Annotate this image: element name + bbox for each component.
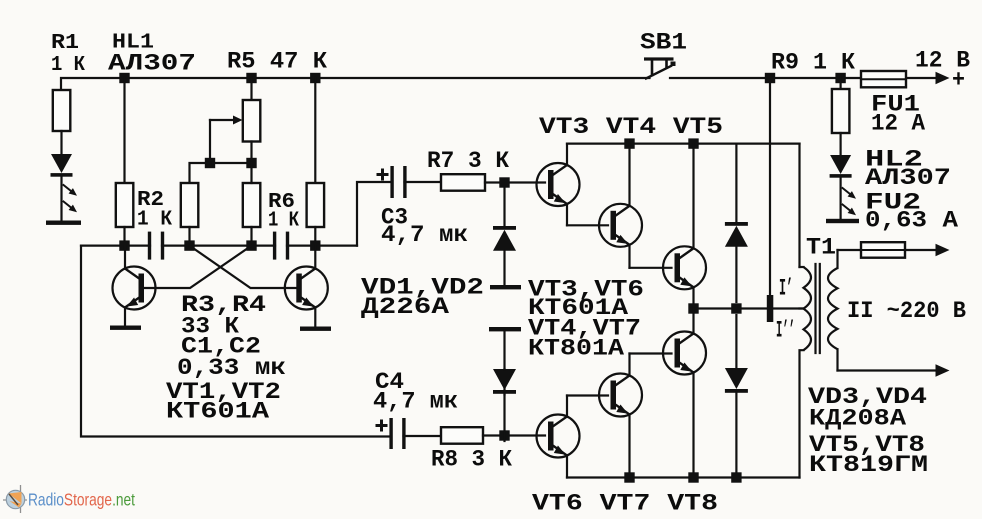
junction node wiper B (246, 158, 256, 168)
fuse FU2 (861, 242, 905, 258)
junction node wiper A (205, 158, 215, 168)
svg-text:1 К: 1 К (268, 210, 299, 233)
label R9 (771, 50, 855, 76)
wire primary center tap (800, 307, 804, 309)
svg-text:R1: R1 (51, 32, 79, 55)
ground of HL2 (826, 219, 859, 223)
svg-text:I’’: I’’ (776, 318, 795, 344)
junction node rail-VT4 (624, 138, 634, 148)
junction node rail-R5 (246, 73, 256, 83)
resistor R1 (53, 90, 71, 131)
junction node R3-C1 base net (184, 240, 194, 250)
wire rail to R5 (250, 78, 252, 100)
arrow +12V output (936, 72, 950, 85)
wire secondary top output (838, 249, 862, 251)
label VD1 VD2 (361, 275, 484, 321)
junction node VD4 bus (731, 472, 741, 482)
wire rail to R2 (123, 78, 125, 183)
arrow secondary output bottom (936, 364, 950, 377)
switch SB1 (644, 57, 676, 78)
resistor R9 (832, 89, 850, 133)
label VT3 VT6 types (528, 277, 644, 362)
svg-text:Т1: Т1 (806, 235, 836, 261)
svg-text:КТ601А: КТ601А (166, 399, 269, 425)
junction node rail-R9 (835, 73, 845, 83)
wire center tap line (694, 307, 804, 309)
label SB1 (640, 30, 687, 56)
ground of VT2 (300, 327, 331, 331)
LED HL1 (51, 131, 73, 221)
label FU2 (865, 190, 958, 234)
LED HL1 light arrows (64, 185, 78, 212)
wire FU2 to output arrow (905, 249, 936, 251)
label R7 (427, 148, 509, 174)
ground of HL1 (46, 221, 81, 225)
ground of VT1 (110, 326, 141, 330)
wire R5 bottom to node B (250, 142, 252, 164)
wire wiper node to R3 (190, 163, 211, 183)
wire R6 to collector node VT2 (314, 227, 316, 246)
junction node R4-C2 base net (246, 240, 256, 250)
svg-text:1 К: 1 К (51, 54, 85, 77)
label R6 (268, 191, 299, 233)
wire VT1 base cross-coupling (144, 246, 252, 288)
label R1 (51, 32, 85, 77)
wire bottom emitter bus (567, 476, 800, 478)
svg-text:II ~220 В: II ~220 В (847, 298, 966, 324)
diode VD4 (725, 315, 748, 478)
svg-text:0,33 мк: 0,33 мк (177, 355, 286, 381)
label VT6 VT7 VT8 (532, 491, 718, 517)
label R2 (137, 189, 172, 232)
svg-text:VT3 VT4 VT5: VT3 VT4 VT5 (539, 114, 723, 140)
wire rail to R9 (839, 78, 841, 89)
wire R8 to VT6 base (483, 434, 545, 436)
svg-text:R9 1 К: R9 1 К (771, 50, 855, 76)
wire collector node VT1 (81, 245, 150, 247)
wire rail to R6 (314, 78, 316, 183)
transformer T1 primary winding I (800, 267, 812, 478)
capacitor C3 (377, 166, 407, 198)
diode VD3 (725, 144, 748, 302)
label R5 (227, 49, 327, 75)
terminal bar 12V center tap (767, 295, 774, 322)
svg-text:12 А: 12 А (871, 111, 925, 137)
junction node VT1 collector (119, 240, 129, 250)
transistor VT7 (599, 354, 642, 478)
transformer T1 core (816, 264, 820, 353)
wire wiper node to R4 top (210, 162, 252, 164)
wire C2 to VT2 collector node (287, 245, 357, 247)
label 12 V (915, 48, 970, 74)
svg-text:I’: I’ (779, 276, 793, 302)
resistor R7 (441, 174, 485, 191)
potentiometer R5 (210, 100, 260, 163)
wire VT6 collector to VT7 base (567, 394, 608, 396)
svg-text:КТ801А: КТ801А (528, 336, 624, 362)
ground of VD2 top (489, 327, 521, 331)
wire top rail right section with output lead (670, 77, 936, 79)
label VD3 VD4 types (808, 384, 927, 432)
transistor VT6 (537, 396, 580, 478)
resistor R3 (181, 183, 199, 227)
svg-text:АЛ307: АЛ307 (108, 51, 196, 77)
diode VD1 (493, 188, 516, 285)
junction node rail-12V feed (765, 73, 775, 83)
wire R7 to VT3 base (485, 181, 545, 183)
fuse FU1 (861, 71, 906, 87)
wire secondary bottom output (838, 369, 937, 371)
wire collector rail VT3 VT4 VT5 (567, 143, 800, 145)
wire VT4 emitter to VT5 base (630, 267, 672, 269)
diode VD2 (493, 369, 516, 441)
label FU1 (871, 92, 925, 137)
transistor VT5 (663, 144, 706, 309)
wire R3 to base node (188, 227, 190, 246)
arrow secondary output top (936, 244, 950, 257)
wire VT7 collector to VT8 base (630, 352, 672, 354)
LED HL2 light arrows (843, 188, 857, 215)
svg-text:SB1: SB1 (640, 30, 687, 56)
label VT5 VT8 types (809, 432, 928, 478)
svg-text:R8 3 К: R8 3 К (431, 447, 512, 473)
resistor R4 (243, 183, 260, 227)
resistor R8 (441, 427, 483, 444)
wire VT3 emitter to VT4 base (567, 224, 608, 226)
svg-text:4,7 мк: 4,7 мк (381, 222, 468, 248)
transistor VT4 (599, 144, 642, 268)
LED HL2 (830, 133, 852, 219)
svg-text:RadioStorage.net: RadioStorage.net (28, 490, 135, 510)
wire R4 to base node (250, 227, 252, 246)
label primary I prime (779, 276, 793, 302)
wire VT2 base cross-coupling (190, 246, 297, 288)
label C4 (373, 369, 458, 415)
capacitor C2 (273, 232, 289, 260)
wire R4 top lead (250, 163, 252, 183)
ground of VD1 (490, 285, 521, 289)
wire top +12V rail left section (61, 78, 650, 90)
logo RadioStorage text (28, 490, 135, 510)
transistor VT8 (663, 309, 706, 478)
junction node rail-R2 (119, 73, 129, 83)
label VT1 VT2 types (166, 379, 281, 425)
junction node VD3 VD4 (731, 303, 741, 313)
svg-text:VT6 VT7 VT8: VT6 VT7 VT8 (532, 491, 718, 515)
junction node rail-R6 (310, 73, 320, 83)
svg-text:0,63 А: 0,63 А (865, 208, 958, 234)
wire 12V feed to center tap (769, 78, 771, 296)
wire C4 to R8 (404, 435, 442, 437)
svg-text:R5 47 К: R5 47 К (227, 49, 327, 75)
label secondary 220V (847, 298, 966, 324)
wire VT1 collector to C4 (81, 246, 389, 437)
transformer T1 secondary winding II (828, 250, 838, 371)
wire R2 to collector node VT1 (123, 227, 125, 246)
label primary I double prime (776, 318, 795, 344)
junction node VT5 emitter - VT8 collector (688, 303, 698, 313)
wire rail to primary top (798, 144, 800, 267)
label HL1 (108, 32, 196, 77)
svg-text:КД208А: КД208А (809, 406, 906, 432)
label R8 (431, 447, 512, 473)
junction node VT7 emitter bus (624, 472, 634, 482)
wire C3 to R7 (405, 181, 442, 183)
wire C1 to R3 node (162, 245, 275, 247)
capacitor C4 (376, 418, 406, 449)
svg-text:12 В: 12 В (915, 48, 970, 74)
svg-text:1 К: 1 К (137, 209, 172, 232)
transistor VT1 (113, 246, 156, 326)
junction node VT6 base (499, 430, 509, 440)
transistor VT3 (537, 144, 580, 226)
capacitor C1 (148, 232, 164, 260)
svg-text:4,7 мк: 4,7 мк (373, 389, 458, 415)
label 12V plus (952, 68, 965, 95)
junction node VT3 base (499, 177, 509, 187)
svg-text:Д226А: Д226А (361, 294, 449, 320)
junction node VT2 collector (310, 240, 320, 250)
label HL2 (865, 147, 951, 192)
svg-text:КТ819ГМ: КТ819ГМ (809, 452, 928, 478)
junction node rail-VT5 (688, 138, 698, 148)
wire VT2 collector node up to C3 (357, 182, 390, 246)
label R3 R4 values (177, 292, 286, 381)
label T1 (806, 235, 836, 261)
logo RadioStorage globe icon (3, 485, 27, 513)
svg-text:АЛ307: АЛ307 (865, 165, 951, 191)
wire VD2 to ground (503, 331, 505, 369)
label C3 (381, 205, 468, 249)
resistor R6 (307, 183, 325, 227)
svg-text:R7 3 К: R7 3 К (427, 148, 509, 174)
junction node VT8 emitter bus (688, 472, 698, 482)
transistor VT2 (285, 246, 328, 327)
label VT3 VT4 VT5 (539, 114, 723, 140)
resistor R2 (116, 183, 134, 227)
